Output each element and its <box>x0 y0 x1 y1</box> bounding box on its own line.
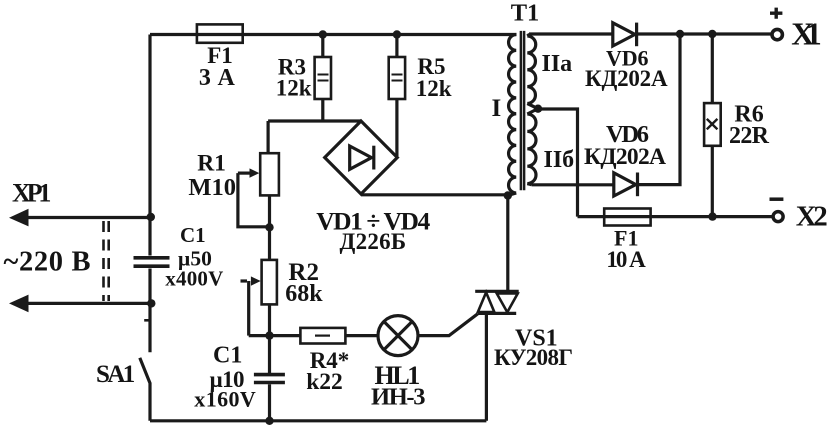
svg-text:XP1: XP1 <box>12 179 51 208</box>
svg-text:~220 В: ~220 В <box>4 247 91 278</box>
svg-text:T1: T1 <box>511 0 540 27</box>
svg-text:22R: 22R <box>729 123 770 149</box>
svg-text:12k: 12k <box>276 76 312 101</box>
svg-text:M10: M10 <box>188 174 236 201</box>
svg-text:x160V: x160V <box>194 387 256 412</box>
svg-text:R1: R1 <box>197 151 226 177</box>
svg-text:КД202А: КД202А <box>585 66 668 91</box>
svg-text:10 А: 10 А <box>606 247 646 272</box>
svg-text:IIб: IIб <box>544 147 575 173</box>
svg-text:I: I <box>492 95 502 122</box>
svg-text:ИН-3: ИН-3 <box>371 384 426 411</box>
svg-text:КУ208Г: КУ208Г <box>494 345 573 370</box>
svg-text:SA1: SA1 <box>96 361 135 388</box>
svg-text:КД202А: КД202А <box>584 144 666 170</box>
svg-text:X1: X1 <box>791 16 822 52</box>
svg-text:3 A: 3 A <box>199 65 236 91</box>
svg-text:IIa: IIa <box>542 51 573 77</box>
svg-text:x400V: x400V <box>165 266 223 290</box>
svg-text:68k: 68k <box>285 281 323 307</box>
svg-text:Д226Б: Д226Б <box>340 229 407 254</box>
svg-text:C1: C1 <box>213 343 242 369</box>
svg-text:12k: 12k <box>416 76 452 101</box>
svg-text:k22: k22 <box>306 369 343 395</box>
svg-text:X2: X2 <box>796 201 828 233</box>
svg-text:C1: C1 <box>180 223 206 247</box>
